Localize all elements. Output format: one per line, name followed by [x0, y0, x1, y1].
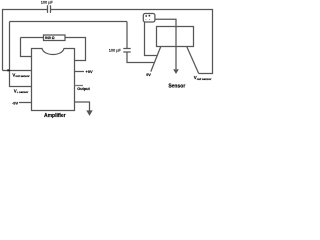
wire second loop horizontal: [10, 21, 128, 23]
svg-text:Amplifier: Amplifier: [44, 113, 66, 119]
wire resistor right lead to amp: [65, 38, 86, 61]
wire -9V lead: [19, 102, 32, 104]
svg-text:Output: Output: [77, 87, 90, 91]
wire top loop left segment: [3, 10, 48, 71]
svg-text:100 µF: 100 µF: [41, 0, 54, 4]
svg-text:Sensor: Sensor: [168, 83, 185, 89]
arrowhead sensor middle leg: [173, 69, 179, 74]
wire second loop drop to amp pin: [21, 38, 32, 57]
svg-text:-9V: -9V: [12, 101, 19, 106]
svg-text:Vout sensor: Vout sensor: [194, 75, 213, 81]
sensor left leg to 9V: [151, 47, 161, 72]
wire V+ sensor drop: [10, 22, 32, 87]
sensor right leg to Vout sensor: [187, 47, 199, 74]
capacitor C2 bottom lead to 9V node: [127, 52, 155, 62]
node junction Vout: [8, 69, 11, 72]
wire resistor left lead: [21, 37, 44, 39]
wire Vout sensor to amplifier: [3, 70, 32, 72]
svg-text:+9V: +9V: [85, 69, 93, 74]
sensor body rectangle: [157, 27, 194, 47]
svg-text:100 µF: 100 µF: [109, 48, 122, 53]
wire connector to sensor middle leg: [155, 19, 176, 69]
wire connector left drop to 9V node: [145, 22, 158, 56]
connector J1 rounded box: [143, 14, 155, 23]
svg-text:9V: 9V: [146, 73, 151, 77]
svg-text:V+ sensor: V+ sensor: [14, 88, 29, 94]
svg-text:Vout sensor: Vout sensor: [12, 72, 30, 78]
capacitor C1 100 uF plates: [48, 5, 51, 13]
connector J1 terminal dots: [145, 15, 147, 17]
capacitor C2 top lead: [126, 22, 128, 49]
resistor R1 body: [44, 35, 66, 41]
arrowhead amplifier ground: [86, 110, 92, 116]
wire +9V stub: [75, 71, 85, 73]
wire output ground drop: [75, 102, 90, 111]
connector J1 lower pin marks: [145, 19, 146, 20]
svg-text:940 Ω: 940 Ω: [45, 36, 55, 40]
wire Output stub: [75, 85, 84, 87]
wire top loop right segment: [51, 10, 213, 74]
capacitor C2 plates: [123, 49, 130, 53]
op-amp U1 amplifier body with notch: [32, 49, 75, 111]
